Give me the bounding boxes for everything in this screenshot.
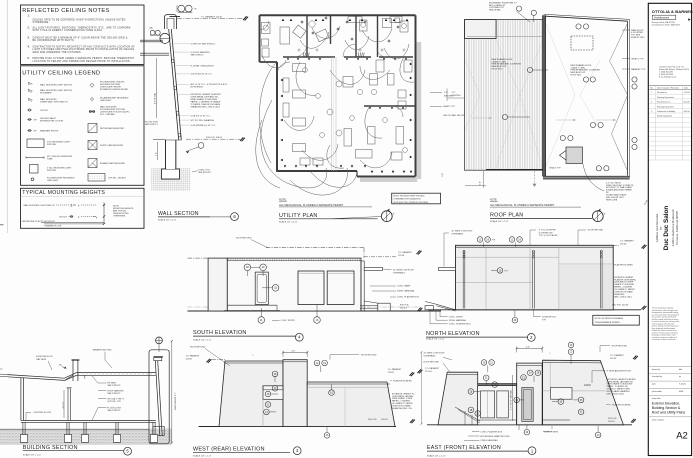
svg-text:WEST (REAR) ELEVATION: WEST (REAR) ELEVATION — [193, 446, 265, 452]
svg-text:OUTLET: OUTLET — [59, 216, 68, 218]
svg-text:19: 19 — [486, 238, 489, 241]
svg-text:3: 3 — [31, 101, 32, 103]
svg-text:Safety Department: Safety Department — [657, 115, 672, 118]
svg-text:ALL MECHANICAL IS UNDER A SEPA: ALL MECHANICAL IS UNDER A SEPARATE PERMI… — [490, 203, 555, 207]
svg-text:1.: 1. — [28, 16, 30, 18]
svg-text:THREE WAY LIGHT SWITCH: THREE WAY LIGHT SWITCH — [40, 101, 68, 104]
svg-text:ROOF BEYOND: ROOF BEYOND — [236, 238, 252, 240]
svg-text:2x14 (RIPPED) @ 24" O.C.: 2x14 (RIPPED) @ 24" O.C. — [191, 125, 217, 127]
svg-text:Torrance, California 90505: Torrance, California 90505 — [675, 211, 679, 245]
svg-text:0508: 0508 — [679, 391, 683, 393]
svg-text:GFI: GFI — [34, 119, 37, 121]
svg-text:6: 6 — [233, 214, 236, 219]
svg-text:RAFTERS: RAFTERS — [36, 358, 46, 361]
svg-text:Roof and Utility Plans: Roof and Utility Plans — [652, 410, 686, 414]
svg-text:ROOF SEC: ROOF SEC — [571, 75, 582, 77]
svg-text:GYP. BD. CEILING: GYP. BD. CEILING — [108, 177, 126, 179]
svg-text:CONC. PLASTER BOX: CONC. PLASTER BOX — [480, 430, 502, 433]
svg-text:OH/ACT TYP.: OH/ACT TYP. — [631, 57, 644, 60]
svg-text:COMBINED IN FOUNDATION: COMBINED IN FOUNDATION — [393, 198, 421, 201]
svg-text:2x RIP JST. SEE STRUCT.: 2x RIP JST. SEE STRUCT. — [191, 44, 216, 46]
svg-text:113.00': 113.00' — [186, 358, 193, 360]
svg-text:PLASTER SCREED: PLASTER SCREED — [612, 404, 631, 407]
svg-text:FIN. FLR. 100.00': FIN. FLR. 100.00' — [612, 305, 629, 307]
svg-text:3: 3 — [651, 111, 652, 113]
svg-text:9'-2" TOP OF HANDRAIL: 9'-2" TOP OF HANDRAIL — [509, 390, 512, 410]
svg-text:sheet title:: sheet title: — [652, 397, 662, 400]
svg-text:TYP.: TYP. — [542, 319, 547, 321]
svg-text:8" HIGH ADDRESS FONT.: 8" HIGH ADDRESS FONT. — [607, 370, 632, 373]
svg-text:4'-8 1/2": 4'-8 1/2" — [63, 401, 65, 408]
svg-text:SCALE 1/4" = 1'-0": SCALE 1/4" = 1'-0" — [426, 337, 445, 340]
svg-text:2.: 2. — [28, 27, 30, 29]
svg-text:13: 13 — [326, 434, 329, 437]
svg-text:19: 19 — [570, 344, 573, 347]
svg-text:OVERHANG: OVERHANG — [393, 272, 405, 275]
svg-text:2: 2 — [530, 335, 533, 340]
svg-text:8-11-06: 8-11-06 — [684, 102, 690, 104]
svg-text:EXISTING FLOOR: EXISTING FLOOR — [34, 412, 52, 414]
svg-text:FIN. FLR.: FIN. FLR. — [400, 304, 409, 306]
svg-text:100.00': 100.00' — [608, 421, 615, 423]
svg-text:WITH TITLE 24 ENERGY CONSERVA: WITH TITLE 24 ENERGY CONSERVATION CODE &… — [33, 29, 104, 32]
svg-text:Submission to Building: Submission to Building — [657, 110, 675, 113]
svg-text:SHEATING (SEC. 2506.4 CBC): SHEATING (SEC. 2506.4 CBC) — [191, 106, 220, 109]
svg-text:M5: M5 — [59, 365, 62, 367]
svg-text:STEEL HANDRAIL: STEEL HANDRAIL — [480, 439, 498, 442]
svg-text:ACCESSIBLE RAMP BEYOND: ACCESSIBLE RAMP BEYOND — [480, 435, 509, 438]
svg-text:18: 18 — [483, 361, 486, 364]
svg-text:OVERHANG: OVERHANG — [451, 233, 463, 236]
svg-text:RETURN AIR REGISTER: RETURN AIR REGISTER — [100, 127, 124, 130]
svg-text:WALL SECTION: WALL SECTION — [158, 211, 199, 217]
svg-text:CAN LIGHT: CAN LIGHT — [100, 99, 112, 102]
svg-text:ALL MECHANICAL IS UNDER A SEPA: ALL MECHANICAL IS UNDER A SEPARATE PERMI… — [279, 203, 344, 207]
svg-text:T.O. PARAPET: T.O. PARAPET — [425, 367, 440, 370]
svg-text:GYP. BD. TYP.: GYP. BD. TYP. — [107, 401, 121, 403]
svg-text:UTILITY CEILING LEGEND: UTILITY CEILING LEGEND — [22, 70, 100, 76]
svg-text:HIGH CURB: HIGH CURB — [606, 199, 618, 201]
svg-text:SEE DETAIL: SEE DETAIL — [489, 9, 502, 12]
svg-text:24203: 24203 — [584, 384, 591, 387]
svg-text:5: 5 — [126, 449, 129, 454]
svg-text:WA: WA — [150, 27, 154, 30]
svg-text:SCALE 1/4" = 1'-0": SCALE 1/4" = 1'-0" — [427, 454, 446, 457]
svg-text:FIXTURE: FIXTURE — [47, 144, 57, 146]
svg-text:113.00': 113.00' — [620, 244, 627, 246]
svg-text:(SEC. 2506.4 CBC): (SEC. 2506.4 CBC) — [614, 296, 632, 298]
svg-text:DOWN SPOUT: DOWN SPOUT — [542, 316, 557, 318]
svg-text:T.O. PARAPET: T.O. PARAPET — [398, 251, 413, 254]
svg-text:CEILING GRID TO BE CENTERED IN: CEILING GRID TO BE CENTERED IN BOTH DIRE… — [33, 19, 126, 21]
svg-text:2x6 STUDS @ 16" O.C.: 2x6 STUDS @ 16" O.C. — [191, 74, 214, 76]
svg-text:NOTE:: NOTE: — [279, 198, 287, 201]
svg-text:acceptance of these restrictio: acceptance of these restrictions. — [652, 338, 677, 341]
svg-text:FINISHED FLOOR: FINISHED FLOOR — [45, 225, 62, 227]
svg-text:LINE OF WALL BELOW: LINE OF WALL BELOW — [443, 114, 465, 117]
svg-text:¼: ¼ — [252, 354, 254, 357]
svg-text:12: 12 — [316, 362, 319, 365]
svg-text:T.O. PARAPET: T.O. PARAPET — [620, 240, 635, 243]
svg-text:TR: TR — [194, 9, 197, 11]
svg-text:UTILITY PLAN: UTILITY PLAN — [279, 213, 318, 219]
svg-text:5.: 5. — [28, 58, 30, 60]
svg-text:SCALE 1/4" = 1'-0": SCALE 1/4" = 1'-0" — [279, 220, 298, 223]
svg-text:1: 1 — [651, 92, 652, 94]
svg-text:PLASTIC SEC: PLASTIC SEC — [631, 36, 645, 39]
svg-text:PARAPET TYP.: PARAPET TYP. — [631, 68, 646, 71]
svg-text:Resubmit to: Resubmit to — [657, 91, 667, 94]
svg-text:2'-0": 2'-0" — [444, 92, 448, 94]
svg-text:OTHERWISE.: OTHERWISE. — [33, 22, 50, 24]
svg-text:¢: ¢ — [78, 215, 80, 219]
svg-text:2x BLK'S. @ 32" O.C.: 2x BLK'S. @ 32" O.C. — [191, 116, 212, 118]
svg-text:LIGHT FIXTURES AND HVAC DUCTWO: LIGHT FIXTURES AND HVAC DUCTWORK PRIOR T… — [33, 48, 135, 51]
svg-text:2'-0": 2'-0" — [156, 152, 158, 156]
svg-text:SCALE 1/4" = 1'-0": SCALE 1/4" = 1'-0" — [193, 455, 212, 458]
svg-text:Dorothy Barnes Othels, WA 12: Dorothy Barnes Othels, WA 126774 — [652, 24, 680, 27]
svg-text:CONC. STEPS: CONC. STEPS — [281, 320, 296, 322]
svg-text:Building Section &: Building Section & — [652, 406, 681, 410]
svg-text:EAST (FRONT) ELEVATION: EAST (FRONT) ELEVATION — [427, 445, 501, 451]
svg-text:FIN. FLR.: FIN. FLR. — [368, 419, 377, 421]
svg-text:A DARK ANODIZED FRAME: A DARK ANODIZED FRAME — [606, 189, 632, 192]
svg-text:3'-4": 3'-4" — [480, 181, 482, 185]
svg-text:ROOF BEYOND: ROOF BEYOND — [361, 354, 377, 356]
svg-text:113.02': 113.02' — [388, 372, 395, 374]
svg-text:BE COORDINATED WITH DUCTS.: BE COORDINATED WITH DUCTS. — [33, 39, 75, 42]
svg-text:Exterior Elevation,: Exterior Elevation, — [652, 401, 680, 405]
svg-text:ALL LIGHT FIXTURES, SWITCHES,: ALL LIGHT FIXTURES, SWITCHES, THERMOSTAT… — [33, 26, 131, 29]
svg-text:ON A SEPARATE PERMIT.: ON A SEPARATE PERMIT. — [595, 321, 621, 324]
svg-text:2: 2 — [651, 102, 652, 104]
svg-text:NOTE:: NOTE: — [490, 199, 498, 202]
svg-text:Date: Date — [684, 86, 688, 89]
svg-text:3/4" PLY WD. SHEATING: 3/4" PLY WD. SHEATING — [191, 119, 215, 122]
svg-text:GRID AND ORDERING THE FIXTURES: GRID AND ORDERING THE FIXTURES. — [33, 51, 82, 54]
svg-text:113.00': 113.00' — [398, 255, 405, 257]
svg-text:4'-0": 4'-0" — [292, 351, 296, 353]
svg-text:STEEL HANDRAIL: STEEL HANDRAIL — [449, 319, 467, 322]
svg-text:SEE STRUCT.: SEE STRUCT. — [107, 385, 121, 387]
svg-text:PLATE HEIGHT 8'-1": PLATE HEIGHT 8'-1" — [174, 392, 177, 410]
svg-text:for:: for: — [658, 226, 662, 230]
svg-text:SUPPLY AIR REGISTER: SUPPLY AIR REGISTER — [100, 144, 124, 147]
svg-text:OTHERWISE.: OTHERWISE. — [113, 215, 126, 217]
svg-text:REFLECTED CEILING NOTES: REFLECTED CEILING NOTES — [22, 8, 109, 14]
svg-text:LOCATION TO TENANT AND OWNER F: LOCATION TO TENANT AND OWNER FOR REVIEW … — [33, 60, 131, 63]
svg-text:TYPICAL MOUNTING HEIGHTS: TYPICAL MOUNTING HEIGHTS — [22, 190, 105, 196]
svg-text:SEE STRUCT.: SEE STRUCT. — [198, 172, 212, 174]
svg-text:CONC. STEPS: CONC. STEPS — [449, 316, 464, 318]
svg-text:PROVIDE HVAC SYSTEM UNDER A SE: PROVIDE HVAC SYSTEM UNDER A SEPARATE PER… — [33, 57, 135, 60]
svg-text:TYP.: TYP. — [504, 270, 508, 272]
svg-text:SCALE 1/4" = 1'-0": SCALE 1/4" = 1'-0" — [490, 220, 509, 223]
svg-text:5'-4": 5'-4" — [442, 173, 444, 177]
svg-text:7-10-06: 7-10-06 — [684, 92, 690, 94]
svg-text:D: D — [31, 92, 33, 94]
svg-text:ROOF BEYOND: ROOF BEYOND — [190, 347, 206, 349]
svg-text:ROOF BEYOND: ROOF BEYOND — [424, 361, 440, 363]
svg-text:(SEC. 2506.4 CBC): (SEC. 2506.4 CBC) — [607, 394, 625, 396]
svg-text:12: 12 — [479, 238, 482, 241]
svg-text:SEE STRUCT.: SEE STRUCT. — [145, 124, 158, 126]
svg-text:NOTE: PROVIDE UFER GROUND: NOTE: PROVIDE UFER GROUND — [393, 196, 425, 198]
svg-text:Resubmission to: Resubmission to — [657, 101, 670, 104]
svg-text:113.00': 113.00' — [425, 371, 432, 373]
svg-text:¢: ¢ — [78, 203, 80, 207]
svg-text:OH/ACT TYP.: OH/ACT TYP. — [549, 166, 561, 169]
svg-text:NOTE: EXTERIOR SIGNAGE: NOTE: EXTERIOR SIGNAGE — [595, 317, 624, 320]
svg-text:4: 4 — [298, 335, 301, 340]
svg-text:SEE STRUCT.: SEE STRUCT. — [107, 393, 121, 395]
svg-text:T.O. PARAPET: T.O. PARAPET — [610, 354, 625, 357]
svg-text:& OVERFLOW: & OVERFLOW — [539, 232, 553, 234]
svg-text:EXISTING ROOF: EXISTING ROOF — [36, 356, 53, 358]
svg-text:20: 20 — [526, 431, 529, 434]
svg-text:CONDUIT MUST BE A MINIMUM OF 6: CONDUIT MUST BE A MINIMUM OF 6" CLEAR AB… — [33, 36, 128, 39]
svg-text:4" TOL SCUPPER: 4" TOL SCUPPER — [539, 230, 556, 232]
svg-text:CONC. PLANTER BOX: CONC. PLANTER BOX — [397, 296, 419, 299]
svg-text:4.: 4. — [28, 45, 30, 48]
svg-text:drawn by: drawn by — [652, 369, 660, 371]
svg-text:FIN. FLR. 100.00': FIN. FLR. 100.00' — [206, 137, 223, 139]
svg-text:OH/ACT TYP.: OH/ACT TYP. — [443, 105, 456, 108]
svg-text:SEE STRUCT.: SEE STRUCT. — [107, 410, 121, 412]
svg-text:42" WIDE LOW ROOF: 42" WIDE LOW ROOF — [424, 352, 446, 354]
svg-text:CONC. RAMP: CONC. RAMP — [397, 285, 411, 288]
svg-text:SCALE 1/4" = 1'-0": SCALE 1/4" = 1'-0" — [23, 453, 42, 456]
svg-text:19: 19 — [323, 362, 326, 365]
svg-text:SOUTH ELEVATION: SOUTH ELEVATION — [193, 330, 247, 336]
svg-text:12: 12 — [570, 351, 573, 354]
svg-text:Barringa Othels, WA 321786: Barringa Othels, WA 321786 — [652, 21, 675, 24]
svg-text:PARAPET BEYOND: PARAPET BEYOND — [93, 349, 112, 352]
svg-text:CONC. PLANTER BOX: CONC. PLANTER BOX — [449, 323, 471, 326]
svg-text:ROOF PLAN: ROOF PLAN — [490, 213, 523, 219]
svg-text:EXHAUST AIR REGISTER: EXHAUST AIR REGISTER — [100, 162, 125, 165]
svg-text:CONTRACTOR TO NOTIFY ARCHITECT: CONTRACTOR TO NOTIFY ARCHITECT OF ANY CO… — [33, 45, 136, 48]
svg-text:PLASTER SCREED: PLASTER SCREED — [393, 380, 412, 383]
svg-text:TYP. @ (2) PLACES: TYP. @ (2) PLACES — [539, 234, 559, 237]
svg-text:3: 3 — [296, 448, 299, 453]
svg-text:T.O. PARAPET: T.O. PARAPET — [186, 354, 201, 357]
svg-text:113.02': 113.02' — [610, 358, 617, 360]
svg-text:ROOF BEYOND: ROOF BEYOND — [612, 345, 628, 347]
svg-text:WEATHER PROOF: WEATHER PROOF — [40, 129, 59, 132]
svg-text:Architecture: Architecture — [654, 15, 670, 19]
svg-text:OTTOLIA & BARNES: OTTOLIA & BARNES — [652, 9, 693, 14]
svg-text:sheet number:: sheet number: — [652, 418, 665, 421]
svg-text:21: 21 — [260, 319, 263, 322]
svg-text:SEE STRUCT.: SEE STRUCT. — [191, 54, 205, 56]
svg-text:4'-0" PLY HD: 4'-0" PLY HD — [155, 92, 157, 104]
svg-text:Planning Department: Planning Department — [657, 96, 674, 99]
svg-text:ROOF BEYOND: ROOF BEYOND — [588, 230, 604, 232]
svg-text:ROOF SEC: ROOF SEC — [492, 69, 503, 71]
svg-text:checked by: checked by — [652, 376, 662, 378]
svg-text:$: $ — [71, 204, 73, 208]
svg-text:20: 20 — [514, 319, 517, 322]
svg-text:9-01-06: 9-01-06 — [684, 111, 690, 113]
svg-text:OVERHANG: OVERHANG — [424, 354, 436, 357]
svg-text:PLASTER SCREED: PLASTER SCREED — [614, 264, 633, 267]
svg-text:WP: WP — [34, 130, 38, 132]
svg-text:16: 16 — [316, 319, 319, 322]
svg-text:100.00': 100.00' — [381, 419, 388, 421]
svg-text:CAN LIGHT: CAN LIGHT — [47, 179, 59, 182]
svg-text:Date / Issuance / Revisions: Date / Issuance / Revisions — [657, 86, 679, 89]
svg-text:WALL MOUNTED LIGHT SWITCH: WALL MOUNTED LIGHT SWITCH — [24, 204, 55, 207]
svg-text:4'-0": 4'-0" — [526, 346, 530, 348]
svg-text:FIXTURE: FIXTURE — [47, 170, 57, 172]
svg-text:dkb: dkb — [679, 369, 682, 371]
svg-text:R-19 BATT INSULATION: R-19 BATT INSULATION — [191, 64, 215, 67]
svg-text:T.O. PARAPET: T.O. PARAPET — [388, 368, 403, 371]
svg-text:SCALE 1/2" = 1'-0": SCALE 1/2" = 1'-0" — [158, 219, 177, 222]
svg-text:(FOR ELECTRIC SERVICE GROUND): (FOR ELECTRIC SERVICE GROUND) — [393, 202, 428, 204]
svg-text:13: 13 — [597, 434, 600, 437]
svg-text:Planning Department: Planning Department — [657, 105, 674, 108]
svg-text:POL. CHROME': POL. CHROME' — [100, 114, 116, 116]
svg-text:SHEATING (SEC. 250: SHEATING (SEC. 250 — [392, 407, 413, 410]
svg-text:EXISTING: EXISTING — [452, 95, 462, 97]
svg-text:TYP.: TYP. — [492, 239, 496, 241]
svg-text:12: 12 — [490, 361, 493, 364]
svg-text:19: 19 — [518, 238, 521, 241]
svg-text:Duc Duc Salon: Duc Duc Salon — [663, 206, 670, 251]
svg-text:A2: A2 — [676, 431, 688, 442]
svg-text:100.00': 100.00' — [400, 307, 407, 309]
svg-text:OUTLET: OUTLET — [40, 110, 49, 112]
svg-text:E. rja.ottolia@cox.net: E. rja.ottolia@cox.net — [659, 76, 677, 79]
svg-text:NORTH ELEVATION: NORTH ELEVATION — [426, 331, 480, 337]
svg-text:W/ DIMMER: W/ DIMMER — [40, 93, 52, 95]
svg-text:1: 1 — [531, 448, 534, 453]
svg-text:2'-0": 2'-0" — [452, 92, 456, 94]
svg-text:¼: ¼ — [549, 352, 551, 355]
svg-text:STEEL HANDRAIL: STEEL HANDRAIL — [397, 290, 415, 293]
svg-text:$: $ — [28, 82, 30, 86]
svg-text:INTERRUPTED OUTLET: INTERRUPTED OUTLET — [40, 121, 64, 123]
svg-text:BOTH ENDS.: BOTH ENDS. — [191, 87, 204, 89]
svg-text:SCALE 1/4" = 1'-0": SCALE 1/4" = 1'-0" — [193, 338, 212, 341]
svg-text:21: 21 — [485, 377, 488, 380]
svg-text:42" WIDE LOW ROOF: 42" WIDE LOW ROOF — [393, 270, 415, 272]
svg-text:7-10-06: 7-10-06 — [679, 384, 686, 386]
svg-text:TUBE: TUBE — [47, 158, 53, 160]
svg-text:BUILDING SECTION: BUILDING SECTION — [23, 445, 78, 451]
svg-text:WALL MOUNTED LIGHT SWITCH: WALL MOUNTED LIGHT SWITCH — [40, 83, 73, 86]
svg-text:8703WHCRG WHITE SILVER': 8703WHCRG WHITE SILVER' — [100, 89, 129, 91]
svg-text:42" WIDE LOW ROOF: 42" WIDE LOW ROOF — [451, 231, 473, 233]
svg-text:12: 12 — [511, 238, 514, 241]
svg-text:T.O. PARAPET 113.00': T.O. PARAPET 113.00' — [201, 15, 223, 18]
svg-text:3.: 3. — [28, 37, 30, 39]
svg-text:job number: job number — [651, 391, 662, 393]
svg-text:FIN. FLR.: FIN. FLR. — [608, 418, 617, 420]
